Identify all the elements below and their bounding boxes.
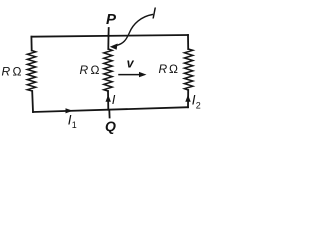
arrow I leader curve (total current into node P) [117, 15, 153, 46]
svg-text:2: 2 [196, 101, 201, 111]
svg-text:Q: Q [105, 118, 116, 134]
wire right branch bottom [187, 90, 189, 107]
wire middle branch bottom [107, 91, 109, 110]
svg-text:v: v [127, 56, 135, 70]
wire right branch top [187, 35, 189, 49]
node P tick (middle branch above top rail) [108, 28, 110, 36]
svg-text:Ω: Ω [169, 62, 178, 76]
arrowhead I (middle branch, points up) [106, 95, 111, 102]
resistor R2 (middle) zigzag [104, 49, 112, 91]
svg-text:I: I [152, 6, 157, 23]
arrowhead I leader (points down-left at wire below P) [110, 44, 118, 50]
resistor R1 (left) zigzag [27, 51, 35, 92]
svg-text:R: R [2, 65, 11, 79]
svg-text:I: I [112, 92, 116, 107]
wire middle branch top [107, 36, 109, 50]
wire left branch top [30, 37, 32, 51]
arrowhead v [139, 72, 147, 77]
svg-text:1: 1 [72, 120, 77, 130]
svg-text:R: R [159, 62, 168, 76]
svg-text:P: P [106, 11, 117, 28]
node Q tick (middle branch below bottom rail) [108, 110, 110, 118]
arrow v (voltage across middle resistor) [119, 74, 142, 76]
svg-text:Ω: Ω [13, 65, 22, 79]
arrowhead I1 (on bottom rail, points right) [66, 108, 73, 113]
arrowhead I2 (right branch, points up) [185, 95, 190, 102]
svg-text:R: R [80, 63, 89, 77]
svg-text:Ω: Ω [91, 63, 100, 77]
resistor R3 (right) zigzag [184, 49, 192, 90]
wire bottom horizontal Q rail [33, 107, 188, 112]
wire left branch bottom [31, 91, 34, 112]
wire top horizontal P rail [31, 35, 188, 37]
